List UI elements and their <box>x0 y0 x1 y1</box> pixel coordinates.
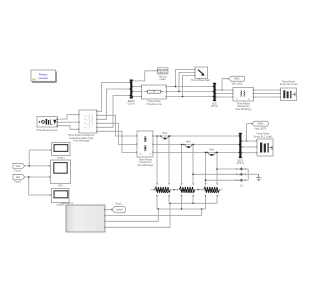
wire ground common bar <box>248 169 259 180</box>
wire W1 to W2 <box>170 189 178 191</box>
svg-text:Vabc_B25: Vabc_B25 <box>232 84 243 86</box>
svg-text:Brk3: Brk3 <box>209 148 214 151</box>
wire W2 to W3 <box>195 189 203 191</box>
wire tap to wind unit W3 left <box>205 152 207 184</box>
wire GT1 to load LD1 a <box>254 89 280 91</box>
scope SC1 <box>52 143 71 160</box>
bus B3 <box>236 133 244 165</box>
svg-text:(Two Windings): (Two Windings) <box>235 109 251 111</box>
svg-text:Series RLC Load: Series RLC Load <box>280 83 298 86</box>
svg-text:Phasors: Phasors <box>39 74 48 77</box>
svg-text:VABC: VABC <box>234 78 240 81</box>
wire tap to wind unit W2 left <box>181 145 183 185</box>
wire T1 out6 to T2 in3 <box>97 131 136 152</box>
svg-text:Series RLC Load1: Series RLC Load1 <box>253 135 273 138</box>
scope SC2 <box>51 160 71 187</box>
goto tag G2 <box>111 203 125 213</box>
svg-text:Three-Phase Source: Three-Phase Source <box>36 129 58 132</box>
wire B3 to load LD2 a <box>242 140 257 142</box>
wire PI to B2 phase c <box>166 96 213 98</box>
scope SC3 <box>52 189 70 207</box>
wire B3 to load LD2 b <box>242 146 257 148</box>
from tag F1 <box>13 163 25 172</box>
svg-text:2500 MVA: 2500 MVA <box>157 69 168 72</box>
grounding transformer GT1 <box>232 88 253 111</box>
svg-text:(25 kV): (25 kV) <box>211 106 219 108</box>
wire SRC1 out2 to T1 in2 <box>58 121 79 123</box>
wire bus B3 to goto tag VB3 <box>247 124 252 141</box>
wire T2 to B3 phase b <box>153 144 239 146</box>
wire bottom rail A <box>169 202 217 204</box>
wire B1 to PI line b <box>133 91 141 93</box>
svg-text:From2: From2 <box>14 181 21 184</box>
wire T1 out5 to bus B1 <box>97 96 130 128</box>
ground branch element GB3 <box>237 179 249 182</box>
wire fault tap C <box>183 76 195 97</box>
svg-text:Three-Phase: Three-Phase <box>236 102 250 105</box>
svg-text:Three-Phase: Three-Phase <box>147 100 161 103</box>
svg-text:Scope1: Scope1 <box>57 158 66 160</box>
goto tag VB2 <box>228 76 245 85</box>
svg-text:Three-Phase: Three-Phase <box>256 133 270 136</box>
svg-text:B25: B25 <box>58 185 63 187</box>
wire B2 to grounding transformer b <box>216 93 233 95</box>
svg-text:Three-Phase: Three-Phase <box>139 158 153 161</box>
wire from tag F2 to scope2 and scope3 <box>25 176 51 178</box>
wire to ground branch 3 <box>206 179 237 181</box>
three-phase fault F1 <box>191 67 211 82</box>
wire B1 to PI line c <box>133 96 141 98</box>
wire tap to wind unit W2 right <box>192 145 194 185</box>
svg-text:(25 kV): (25 kV) <box>128 104 136 106</box>
wire PI to B2 phase b <box>166 91 213 93</box>
svg-text:(575 V): (575 V) <box>236 163 244 165</box>
svg-text:Scope3: Scope3 <box>56 204 65 206</box>
wire T1 out4 to T2 in2 <box>97 123 136 144</box>
svg-text:G1: G1 <box>240 186 244 188</box>
wind unit W1 <box>151 184 171 210</box>
svg-text:Three-Phase Fault: Three-Phase Fault <box>191 79 211 82</box>
bus B1 <box>128 80 136 106</box>
svg-text:Vabc: Vabc <box>15 166 21 168</box>
inline element E3 <box>206 148 217 155</box>
wire SRC1 out3 to T1 in3 <box>58 126 79 130</box>
bus B2 <box>211 83 219 108</box>
svg-text:PI Section Line: PI Section Line <box>146 103 162 106</box>
svg-text:B25kV: B25kV <box>128 101 135 103</box>
svg-text:Inductance Matrix Type: Inductance Matrix Type <box>69 137 94 140</box>
wire B2 to grounding transformer a <box>216 89 233 91</box>
wire subsystem port1 to goto tag G2 <box>106 209 112 211</box>
annotation block A1 <box>157 68 169 81</box>
wire tap to wind unit W1 right <box>168 136 170 184</box>
wire from tag F1 to scope1 and scope2 <box>25 165 51 167</box>
wire T1 out2 to T2 in1 <box>97 115 136 136</box>
svg-text:Goto1: Goto1 <box>115 203 122 206</box>
load LD2 three-phase series RLC load <box>253 133 273 156</box>
svg-text:PI: PI <box>153 92 156 94</box>
wire subsystem port2 feed <box>106 209 202 216</box>
svg-text:VABC: VABC <box>257 123 263 126</box>
svg-text:Three-Phase Transformer: Three-Phase Transformer <box>68 134 95 137</box>
wire tap to wind unit W3 right <box>216 152 218 184</box>
ground branch element GB2 <box>237 173 249 176</box>
svg-text:Transformer: Transformer <box>237 105 250 108</box>
svg-text:Three-Phase: Three-Phase <box>282 80 296 83</box>
goto tag VB3 <box>251 121 268 130</box>
wire T2 to B3 phase a with element E1 <box>153 135 239 137</box>
svg-text:(Two Windings): (Two Windings) <box>137 165 153 167</box>
transformer T2 two windings <box>136 131 153 167</box>
wire SRC1 out1 to T1 in1 <box>58 115 79 119</box>
wire fault tap B <box>179 73 194 92</box>
subsystem SS1 <box>60 202 105 232</box>
svg-text:powergui: powergui <box>38 77 48 80</box>
wire to ground branch 2 <box>193 173 236 175</box>
wire T1 out3 to bus B1 <box>97 89 130 119</box>
wind unit W2 <box>179 184 195 210</box>
svg-text:(Two Windings): (Two Windings) <box>73 141 89 143</box>
from tag F2 <box>13 174 25 183</box>
wire T1 out1 to bus B1 <box>97 83 130 112</box>
wire T2 to B3 phase c <box>153 151 239 153</box>
svg-text:X0/X1=3: X0/X1=3 <box>158 73 168 75</box>
source SRC1 three-phase programmable voltage source <box>36 117 58 132</box>
powergui U0 <box>31 70 57 83</box>
wire bottom rail B <box>157 208 206 210</box>
wire B3 to load LD2 c <box>242 152 257 154</box>
wire subsystem port4 feed <box>106 203 170 227</box>
wire GT1 to load LD1 b <box>254 93 280 95</box>
svg-text:Brk1: Brk1 <box>163 132 168 135</box>
inline element E2 <box>183 141 194 148</box>
PI section line L1 <box>141 85 166 106</box>
wire bus B2 to goto tag <box>222 79 228 90</box>
load LD1 three-phase series RLC load <box>280 80 298 100</box>
svg-text:Transformer: Transformer <box>139 161 152 164</box>
wire tap to wind unit W1 left <box>156 136 158 184</box>
wire B2 to grounding transformer c <box>216 96 233 98</box>
svg-text:Brk2: Brk2 <box>186 141 191 144</box>
wire subsystem port3 feed <box>106 209 159 221</box>
svg-text:B575: B575 <box>238 160 244 162</box>
ground symbol GND1 <box>256 174 261 181</box>
wire GT1 to load LD1 c <box>254 96 280 98</box>
inline element E1 <box>160 132 171 139</box>
wind unit W3 <box>204 184 220 210</box>
svg-text:From1: From1 <box>14 169 21 172</box>
svg-text:Vabc_B575: Vabc_B575 <box>254 128 267 130</box>
wire PI to B2 phase a <box>166 86 213 88</box>
wire to ground branch 1 <box>217 168 236 170</box>
ground branch element GB1 <box>237 167 249 170</box>
svg-text:B25: B25 <box>212 103 217 105</box>
wire fault tap A <box>176 70 195 87</box>
wire W3 right stub <box>219 189 223 191</box>
svg-text:[wind]: [wind] <box>116 210 122 212</box>
wire B1 to measurement label block <box>133 71 157 81</box>
wire B1 to PI line a <box>133 86 141 88</box>
svg-text:meas.: meas. <box>160 79 167 81</box>
transformer T1 inductance matrix type <box>68 110 97 143</box>
